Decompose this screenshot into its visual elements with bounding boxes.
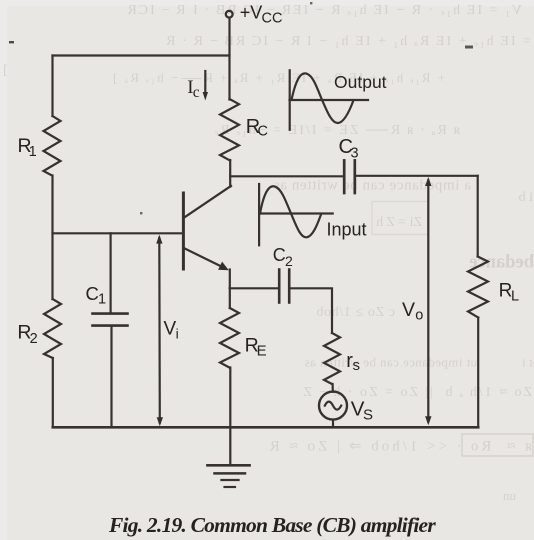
label RC xyxy=(246,116,268,140)
wire: collector node to C3 xyxy=(230,175,343,177)
wire: base wire xyxy=(53,232,183,234)
wire: C1 branch lower xyxy=(110,326,112,428)
transistor Q1 xyxy=(183,186,231,270)
measurement arrow Vi xyxy=(156,235,163,427)
label Vi xyxy=(164,319,179,342)
svg-text:2: 2 xyxy=(30,331,38,347)
svg-text:Zi = Z h: Zi = Z h xyxy=(376,215,422,230)
wire: right rail lower segment xyxy=(477,318,479,428)
ground xyxy=(208,465,250,487)
svg-text:+ R₁ₑ h₁ₑ + IE Rₐ + IE R₁ + Rₐ: + R₁ₑ h₁ₑ + IE Rₐ + IE R₁ + Rₐ + R⸺− h₁ₑ… xyxy=(111,70,445,85)
label Vo xyxy=(402,299,423,324)
svg-text:c Zo ≥ 1/hob: c Zo ≥ 1/hob xyxy=(316,305,395,320)
wire: rs to VS xyxy=(332,384,334,392)
label +VCC xyxy=(240,2,283,26)
power terminal +VCC xyxy=(226,11,233,18)
svg-text:un: un xyxy=(503,488,517,503)
label VS xyxy=(351,397,373,423)
svg-text:i: i xyxy=(176,326,179,342)
svg-text:= IE h₁ₑ + IE Rₐ h₁ + IE h₁ −: = IE h₁ₑ + IE Rₐ h₁ + IE h₁ − I R − IC R… xyxy=(164,34,531,49)
svg-text:2: 2 xyxy=(285,253,293,269)
wire: RE branch upper xyxy=(229,288,231,308)
resistor RC xyxy=(220,99,239,161)
svg-text:a impedance can be written as: a impedance can be written as xyxy=(273,178,471,194)
wire: left rail middle segment xyxy=(51,176,53,300)
waveform Input xyxy=(259,184,333,245)
svg-text:bedance: bedance xyxy=(469,253,534,273)
label R1 xyxy=(18,135,37,160)
svg-text:S: S xyxy=(363,406,373,423)
svg-text:V: V xyxy=(164,319,177,340)
label RE xyxy=(245,334,267,359)
svg-text:C: C xyxy=(273,245,286,265)
svg-text:L: L xyxy=(511,288,519,304)
svg-text:ni b: ni b xyxy=(519,190,534,205)
svg-text:1: 1 xyxy=(98,292,106,308)
svg-text:C: C xyxy=(258,124,268,140)
resistor rs xyxy=(324,333,340,384)
label R2 xyxy=(17,321,37,346)
svg-text:c: c xyxy=(193,84,200,101)
wire: emitter node to C2 xyxy=(230,287,278,289)
waveform Output xyxy=(290,70,369,130)
label Ic xyxy=(187,77,200,101)
resistor RE xyxy=(220,308,239,368)
wire: right rail upper segment xyxy=(477,176,479,257)
wire: top rail from R1 branch to VCC line xyxy=(53,54,230,56)
label rs xyxy=(346,350,360,374)
svg-text:Fig. 2.19. Common Base (CB) am: Fig. 2.19. Common Base (CB) amplifier xyxy=(108,513,436,537)
current arrow Ic xyxy=(203,71,208,101)
wire: C2 to rs branch xyxy=(290,288,332,333)
wire: left rail bottom segment xyxy=(52,358,54,427)
wire: C1 branch upper xyxy=(109,233,111,313)
resistor R1 xyxy=(44,116,61,176)
wire: bottom rail xyxy=(53,426,478,429)
wire: emitter vertical to node xyxy=(229,270,231,289)
measurement arrow Vo xyxy=(425,177,431,425)
label RL xyxy=(499,280,519,304)
svg-text:я ≈ Ro · << 1/hob ⇒ | Zo ≈ R: я ≈ Ro · << 1/hob ⇒ | Zo ≈ R xyxy=(267,439,532,455)
svg-text:3: 3 xyxy=(351,145,359,161)
capacitor C1 xyxy=(93,314,128,326)
svg-text:E: E xyxy=(257,342,267,359)
source VS xyxy=(319,392,347,420)
svg-text:1: 1 xyxy=(29,144,37,160)
resistor R2 xyxy=(44,299,61,358)
svg-text:[: [ xyxy=(3,63,8,78)
svg-text:C: C xyxy=(86,283,99,304)
svg-text:s: s xyxy=(353,357,361,374)
svg-text:CC: CC xyxy=(262,11,283,27)
wire: RC bottom to collector node xyxy=(229,160,231,187)
resistor RL xyxy=(468,257,488,318)
svg-text:Output: Output xyxy=(334,72,387,92)
svg-text:V: V xyxy=(402,299,415,321)
svg-text:Input: Input xyxy=(327,219,367,239)
label C1 xyxy=(86,283,107,308)
wire: RE to bottom rail and ground stem xyxy=(229,368,231,466)
capacitor C3 xyxy=(344,160,355,193)
capacitor C2 xyxy=(279,270,289,303)
label C2 xyxy=(273,245,293,269)
svg-text:+V: +V xyxy=(240,2,263,22)
wire: VS to bottom rail xyxy=(332,420,334,428)
svg-text:ut i: ut i xyxy=(522,355,534,370)
wire: VCC vertical down to RC xyxy=(228,18,230,100)
wire: C3 to right rail xyxy=(356,175,478,177)
svg-text:V₁ = IE h₁ₑ · R − IE h₁ₑ R − I: V₁ = IE h₁ₑ · R − IE h₁ₑ R − IER − IC RB… xyxy=(125,3,522,18)
label C3 xyxy=(339,136,359,161)
svg-text:o: o xyxy=(415,308,423,324)
wire: left rail top segment xyxy=(51,56,53,117)
